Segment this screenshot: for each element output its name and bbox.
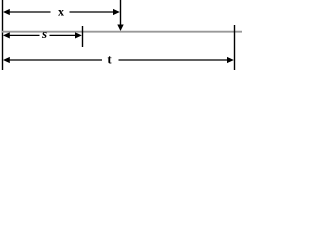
extension line right of x dimension xyxy=(120,0,122,25)
dimension line x left segment xyxy=(9,11,51,13)
gray reference line xyxy=(2,31,242,33)
svg-text:x: x xyxy=(58,5,64,19)
arrowhead x left xyxy=(3,9,10,15)
dimension line t right segment xyxy=(119,59,229,61)
dimension line t left segment xyxy=(9,59,103,61)
arrowhead x right xyxy=(113,9,120,15)
arrowhead t right xyxy=(227,57,234,63)
svg-text:t: t xyxy=(107,51,112,66)
arrow down onto reference line xyxy=(117,25,123,32)
dimension line x right segment xyxy=(70,11,115,13)
extension line s dimension xyxy=(82,26,84,47)
arrowhead s right xyxy=(75,32,82,38)
arrowhead t left xyxy=(3,57,10,63)
dimension line s left segment xyxy=(9,34,40,36)
extension line left xyxy=(2,0,4,70)
svg-text:s: s xyxy=(41,26,47,41)
dimension line s right segment xyxy=(50,34,77,36)
arrowhead s left xyxy=(3,32,10,38)
extension line right xyxy=(234,25,236,70)
